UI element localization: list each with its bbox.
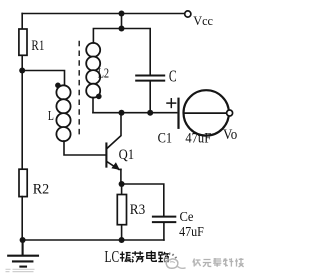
wire ground rail (23, 239, 164, 241)
svg-text:R2: R2 (33, 182, 49, 198)
ground (8, 240, 38, 267)
terminal Vcc circle (185, 11, 191, 17)
resistor R2 (19, 169, 27, 196)
plus sign of C1 (167, 99, 176, 108)
watermark tiny text bottom-left (6, 269, 35, 271)
transformer core dashed line (78, 41, 80, 139)
wire node A to L top (22, 71, 64, 86)
resistor R1 (19, 29, 27, 55)
svg-text:Vcc: Vcc (193, 13, 213, 28)
svg-text:47uF: 47uF (185, 131, 211, 147)
label title chinese char dian (147, 251, 156, 262)
wire emitter to Ce (122, 184, 164, 216)
wire Vcc top rail (22, 13, 184, 15)
polarity dot of L2 (96, 94, 102, 100)
wire emitter vertical (120, 169, 122, 184)
svg-text:R1: R1 (31, 38, 44, 54)
label title chinese char zhen (120, 252, 131, 263)
node junction on Vcc rail (119, 11, 125, 17)
terminal Vo circle (227, 110, 233, 116)
wire R3 bottom stub (121, 225, 123, 240)
output instrument circle (184, 90, 229, 135)
inductor L2 (86, 43, 100, 98)
svg-text:R3: R3 (130, 202, 145, 218)
capacitor C1 plate (177, 99, 179, 128)
node junction ground R3 (119, 237, 125, 243)
transistor Q1 emitter (107, 162, 121, 170)
node junction on second rail (119, 26, 125, 32)
capacitor Ce (153, 217, 175, 223)
transistor Q1 base bar (105, 144, 107, 167)
wire L2 top to second rail (93, 29, 121, 44)
svg-text:LC: LC (105, 247, 120, 266)
wire collector net horizontal (93, 112, 177, 114)
wire R1 bottom stub (21, 55, 23, 70)
wire C bottom stub (149, 82, 151, 113)
wire Ce bottom stub (163, 223, 165, 240)
wire R3 top stub (121, 184, 123, 194)
wire L bottom to Q1 base (64, 141, 105, 155)
wire diameter line inside circle (184, 112, 229, 114)
svg-text:Vo: Vo (223, 127, 237, 143)
wire R2 top stub (21, 71, 23, 170)
wire R2 bottom stub (21, 197, 23, 240)
svg-text:C1: C1 (158, 131, 173, 147)
wire link top rail to second rail (121, 14, 123, 29)
node A junction R1/R2/L (19, 68, 25, 74)
logo watermark squiggle (166, 253, 186, 269)
svg-text:L2: L2 (98, 67, 110, 82)
watermark text yi yuan su ke ji (193, 258, 244, 267)
wire collector vertical to Q1 (107, 113, 121, 149)
capacitor C (136, 76, 164, 81)
polarity dot of L (55, 83, 61, 89)
svg-text:C: C (169, 67, 177, 86)
node junction emitter (119, 181, 125, 187)
node junction collector (119, 110, 125, 116)
svg-text:Ce: Ce (180, 209, 194, 224)
svg-text:47uF: 47uF (179, 225, 204, 240)
wire L2 bottom stub (92, 98, 94, 113)
inductor L (56, 85, 70, 141)
label title chinese char lu (158, 252, 169, 262)
node junction ground left (20, 237, 26, 243)
node junction C bottom (147, 110, 153, 116)
svg-text:Q1: Q1 (119, 147, 135, 163)
wire second rail to capacitor C (122, 29, 151, 75)
resistor R3 (117, 195, 126, 225)
svg-text:L: L (48, 109, 54, 124)
wire R1 top stub (21, 14, 23, 30)
transistor Q1 emitter arrowhead (111, 162, 119, 170)
label title chinese char dang (132, 251, 143, 262)
